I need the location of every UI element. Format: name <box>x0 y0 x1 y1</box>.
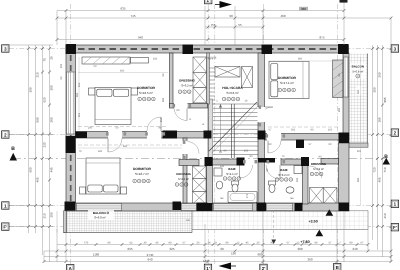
svg-text:7: 7 <box>339 242 341 245</box>
svg-text:590: 590 <box>357 177 360 182</box>
svg-text:BAIE: BAIE <box>280 168 287 172</box>
svg-text:BAIE: BAIE <box>228 167 235 171</box>
svg-text:1': 1' <box>206 266 210 270</box>
svg-text:14: 14 <box>208 242 211 245</box>
svg-text:S=2.8 m²: S=2.8 m² <box>313 168 324 171</box>
svg-text:90: 90 <box>229 14 233 18</box>
svg-text:165: 165 <box>328 129 333 132</box>
svg-text:620: 620 <box>120 70 125 73</box>
svg-text:90: 90 <box>169 242 172 245</box>
svg-text:14: 14 <box>245 100 248 103</box>
svg-text:S=17.1 m²: S=17.1 m² <box>280 81 294 85</box>
svg-text:50: 50 <box>116 127 119 130</box>
svg-text:S=5.8 m²: S=5.8 m² <box>352 71 363 74</box>
svg-text:940: 940 <box>138 36 143 40</box>
svg-text:465: 465 <box>378 177 382 182</box>
svg-text:S=2.3 m²: S=2.3 m² <box>178 178 189 181</box>
svg-text:200: 200 <box>50 212 54 217</box>
svg-text:185: 185 <box>378 117 382 122</box>
svg-text:90: 90 <box>329 143 332 146</box>
svg-text:90: 90 <box>224 150 227 153</box>
svg-text:390: 390 <box>29 87 33 92</box>
svg-text:50: 50 <box>60 76 63 79</box>
svg-text:185: 185 <box>153 58 158 61</box>
svg-text:90: 90 <box>226 242 229 245</box>
svg-text:S=16.5 m²: S=16.5 m² <box>139 91 153 95</box>
svg-text:90: 90 <box>269 143 272 146</box>
svg-text:S=3.2 m²: S=3.2 m² <box>181 84 192 88</box>
svg-text:+3.50: +3.50 <box>308 219 317 223</box>
svg-text:501: 501 <box>78 112 81 117</box>
svg-text:205: 205 <box>244 150 249 153</box>
svg-text:770: 770 <box>84 242 89 245</box>
svg-text:380: 380 <box>297 247 302 251</box>
svg-text:380: 380 <box>301 7 306 11</box>
svg-text:230: 230 <box>43 142 47 147</box>
svg-text:620: 620 <box>98 150 103 153</box>
svg-text:57: 57 <box>269 129 272 132</box>
svg-text:S=6.0 m²: S=6.0 m² <box>94 216 105 220</box>
svg-text:lav: lav <box>220 197 224 200</box>
svg-text:635: 635 <box>120 7 125 11</box>
svg-text:25: 25 <box>257 242 260 245</box>
svg-text:F': F' <box>393 225 397 230</box>
svg-text:620: 620 <box>123 145 128 148</box>
svg-text:70: 70 <box>282 155 285 158</box>
svg-text:45: 45 <box>156 242 159 245</box>
svg-text:80: 80 <box>177 109 180 112</box>
svg-text:150: 150 <box>231 252 236 256</box>
svg-text:225: 225 <box>220 165 225 168</box>
svg-text:745: 745 <box>130 14 135 18</box>
svg-text:HOL+SCARA: HOL+SCARA <box>222 86 243 90</box>
svg-text:640: 640 <box>147 258 152 262</box>
svg-text:57: 57 <box>329 242 332 245</box>
svg-text:210: 210 <box>160 117 163 122</box>
svg-text:90: 90 <box>311 129 314 132</box>
svg-text:57: 57 <box>287 242 290 245</box>
svg-text:390: 390 <box>76 92 79 97</box>
svg-text:S=3.2 m²: S=3.2 m² <box>278 173 289 177</box>
svg-text:755: 755 <box>210 23 215 27</box>
svg-text:DORMITOR: DORMITOR <box>137 86 156 90</box>
svg-text:240: 240 <box>352 247 357 251</box>
svg-text:90: 90 <box>162 73 165 76</box>
svg-text:460: 460 <box>280 14 285 18</box>
svg-text:B: B <box>336 265 339 270</box>
svg-text:50: 50 <box>94 65 97 68</box>
svg-text:8: 8 <box>215 242 217 245</box>
svg-text:635: 635 <box>127 247 132 251</box>
svg-text:B: B <box>11 146 15 152</box>
svg-text:S=9.6 m²: S=9.6 m² <box>226 91 238 95</box>
svg-text:590: 590 <box>36 117 40 122</box>
svg-text:160: 160 <box>357 89 360 94</box>
svg-text:90: 90 <box>220 247 224 251</box>
svg-text:310: 310 <box>36 72 40 77</box>
svg-text:70: 70 <box>43 58 47 62</box>
svg-text:57: 57 <box>309 143 312 146</box>
svg-text:875: 875 <box>319 36 324 40</box>
svg-text:67: 67 <box>361 242 364 245</box>
svg-text:45: 45 <box>246 242 249 245</box>
svg-text:BALCON: BALCON <box>352 65 364 69</box>
svg-text:25: 25 <box>197 242 200 245</box>
svg-text:2′: 2′ <box>262 266 266 270</box>
svg-text:200: 200 <box>88 127 93 130</box>
svg-text:200: 200 <box>60 63 63 68</box>
svg-text:720: 720 <box>373 167 377 172</box>
svg-text:55: 55 <box>238 23 242 27</box>
svg-text:90: 90 <box>315 242 318 245</box>
svg-text:210: 210 <box>383 213 387 218</box>
svg-text:S=16.7 m²: S=16.7 m² <box>135 172 149 176</box>
svg-text:300: 300 <box>50 85 54 90</box>
svg-text:360: 360 <box>307 258 312 262</box>
svg-text:lav: lav <box>290 197 294 200</box>
svg-text:260: 260 <box>338 107 341 112</box>
svg-text:90: 90 <box>350 242 353 245</box>
svg-text:DRESSING: DRESSING <box>176 172 191 176</box>
svg-text:BALCON ②: BALCON ② <box>93 211 110 215</box>
svg-text:1': 1' <box>206 0 210 3</box>
svg-text:445: 445 <box>50 167 54 172</box>
svg-text:510: 510 <box>78 82 81 87</box>
svg-text:170: 170 <box>246 193 249 198</box>
svg-text:14: 14 <box>189 118 192 121</box>
svg-text:885: 885 <box>383 97 387 102</box>
svg-text:385: 385 <box>298 58 303 61</box>
svg-text:DORMITOR: DORMITOR <box>133 167 152 171</box>
svg-text:90: 90 <box>250 155 253 158</box>
svg-text:365: 365 <box>162 97 165 102</box>
svg-text:18: 18 <box>202 123 205 126</box>
svg-text:S=4.1 m²: S=4.1 m² <box>226 172 237 176</box>
svg-text:260: 260 <box>378 72 382 77</box>
svg-text:DORMITOR: DORMITOR <box>278 76 297 80</box>
svg-text:25: 25 <box>50 56 54 60</box>
svg-text:302: 302 <box>291 129 296 132</box>
svg-text:150: 150 <box>186 219 191 222</box>
svg-text:325: 325 <box>169 247 174 251</box>
svg-text:62: 62 <box>130 242 133 245</box>
svg-text:l.p. 0: l.p. 0 <box>208 58 214 61</box>
svg-text:30: 30 <box>144 242 147 245</box>
svg-text:F': F' <box>3 225 7 230</box>
svg-text:70: 70 <box>79 150 82 153</box>
svg-text:620: 620 <box>43 97 47 102</box>
svg-text:12: 12 <box>237 242 240 245</box>
svg-text:1: 1 <box>216 100 218 103</box>
svg-text:90: 90 <box>108 242 111 245</box>
svg-text:DRESSING: DRESSING <box>311 162 327 166</box>
svg-text:2740: 2740 <box>147 253 154 257</box>
svg-text:710: 710 <box>383 167 387 172</box>
svg-text:302: 302 <box>357 150 362 153</box>
svg-text:210: 210 <box>43 213 47 218</box>
svg-text:280: 280 <box>50 117 54 122</box>
svg-text:57: 57 <box>183 242 186 245</box>
svg-text:90: 90 <box>319 156 322 159</box>
svg-text:140: 140 <box>203 259 208 263</box>
svg-text:1160: 1160 <box>93 253 100 257</box>
svg-text:980: 980 <box>257 253 262 257</box>
svg-text:465: 465 <box>36 177 40 182</box>
svg-text:165: 165 <box>296 177 299 182</box>
svg-text:90: 90 <box>159 127 162 130</box>
svg-text:600: 600 <box>29 167 33 172</box>
svg-text:DRESSING: DRESSING <box>179 79 195 83</box>
svg-text:350: 350 <box>373 87 377 92</box>
